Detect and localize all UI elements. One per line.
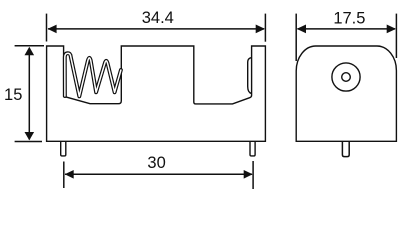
- dim 30 extension lines: [63, 162, 65, 189]
- side view inner circle: [342, 73, 351, 82]
- side view outer circle: [332, 63, 360, 91]
- dim 34.4 extension lines: [46, 14, 48, 42]
- dim 15 extension ticks: [15, 45, 44, 47]
- arrowhead 30 left: [65, 170, 74, 179]
- arrowhead 15 down: [25, 132, 35, 140]
- svg-text:17.5: 17.5: [333, 10, 365, 28]
- svg-text:34.4: 34.4: [142, 9, 174, 27]
- svg-text:15: 15: [4, 86, 22, 104]
- arrowhead 15 up: [25, 47, 35, 55]
- arrowhead 17.5 right: [387, 25, 396, 34]
- dim 17.5 line: [298, 28, 396, 30]
- dim 15 line: [28, 48, 30, 140]
- svg-text:30: 30: [147, 154, 165, 172]
- dim 34.4 line: [48, 28, 264, 30]
- dim 17.5 extension lines: [295, 14, 297, 61]
- spring contact (negative terminal), double-line zigzag: [65, 53, 121, 96]
- battery holder front view body outline: [47, 46, 266, 141]
- side view pin: [342, 141, 349, 156]
- front right pin: [250, 141, 255, 156]
- dim 30 line: [65, 173, 252, 175]
- side view body: [296, 46, 396, 141]
- front left pin: [61, 141, 66, 156]
- arrowhead 17.5 left: [297, 25, 306, 34]
- arrowhead 34.4 left: [48, 25, 57, 34]
- positive contact button on right wall: [248, 58, 252, 94]
- arrowhead 34.4 right: [256, 25, 265, 34]
- arrowhead 30 right: [244, 170, 253, 179]
